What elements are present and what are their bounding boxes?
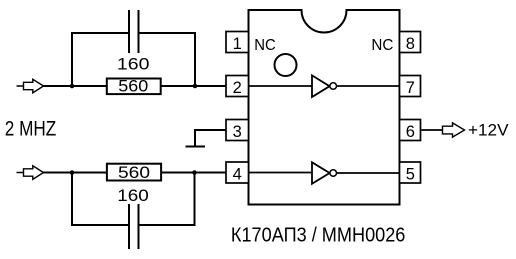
capacitor C1 plates [129, 10, 139, 53]
wire pin 6 to +12V arrow [422, 129, 443, 131]
pin-1 index circle marker [275, 54, 297, 76]
label 2 MHZ [5, 118, 57, 141]
pin 6 box [400, 120, 421, 142]
resistor R1 value 560 [118, 78, 148, 96]
ground [186, 146, 206, 148]
wire input2 to pin 4 [44, 172, 227, 174]
wire right riser from C1 [139, 33, 196, 86]
svg-text:3: 3 [233, 123, 242, 141]
node junction dot A2 [193, 84, 198, 89]
wire inverter U1B to pin 5 [337, 172, 400, 174]
wire right drop from C2 [139, 173, 195, 226]
part label К170АП3 / MMH0026 [231, 224, 406, 247]
input arrow 1 (top input port) [17, 79, 44, 93]
IC U1 body (К170АП3 / MMH0026, DIP-8 outline with notch) [249, 10, 400, 205]
resistor R1 box [107, 79, 161, 95]
svg-text:1: 1 [233, 35, 242, 53]
svg-text:2: 2 [233, 79, 242, 97]
svg-text:160: 160 [117, 187, 149, 205]
inverter U1A output bubble [330, 83, 337, 90]
wire input1 to pin 2 [44, 85, 227, 87]
op-amp U1B inverter triangle [312, 162, 330, 184]
input arrow 2 (bottom input port) [17, 166, 44, 180]
pin 2 box [226, 76, 249, 98]
wire pin 3 to ground [195, 130, 226, 147]
node junction dot B1 [70, 170, 75, 175]
svg-text:5: 5 [406, 165, 415, 183]
pin 4 box [226, 162, 249, 183]
svg-text:160: 160 [117, 55, 150, 73]
svg-text:К170АП3 / ММН0026: К170АП3 / ММН0026 [231, 224, 406, 247]
pin 3 box [226, 120, 249, 142]
resistor R2 value 560 [118, 164, 150, 182]
svg-text:560: 560 [118, 78, 148, 96]
wire inverter U1A to pin 7 [337, 85, 400, 87]
label NC (pin 1) [254, 37, 275, 54]
net label +12V [468, 122, 509, 140]
node junction dot B2 [192, 170, 197, 175]
svg-text:NC: NC [254, 37, 275, 54]
op-amp U1A inverter triangle [312, 75, 330, 97]
capacitor C1 value 160 [117, 55, 150, 73]
label NC (pin 8) [371, 37, 393, 54]
svg-text:6: 6 [406, 123, 415, 141]
wire pin2 to inverter U1A [249, 85, 313, 87]
wire left drop to C2 [72, 173, 129, 226]
svg-text:4: 4 [233, 165, 242, 183]
wire left riser to C1 [72, 33, 129, 86]
svg-text:7: 7 [406, 79, 415, 97]
svg-text:560: 560 [118, 164, 150, 182]
svg-text:NC: NC [371, 37, 393, 54]
resistor R2 box [107, 164, 161, 181]
node junction dot A1 [70, 84, 75, 89]
svg-text:+12V: +12V [468, 122, 509, 140]
pin 5 box [400, 162, 421, 183]
capacitor C2 plates [129, 204, 139, 249]
capacitor C2 value 160 [117, 187, 149, 205]
output arrow +12V port [443, 123, 465, 137]
wire pin4 to inverter U1B [249, 172, 313, 174]
inverter U1B output bubble [330, 170, 337, 177]
pin 7 box [400, 76, 421, 98]
pin 8 box [400, 32, 421, 54]
svg-text:8: 8 [406, 35, 415, 53]
pin 1 box [226, 32, 249, 54]
svg-text:2 MHZ: 2 MHZ [5, 118, 57, 141]
